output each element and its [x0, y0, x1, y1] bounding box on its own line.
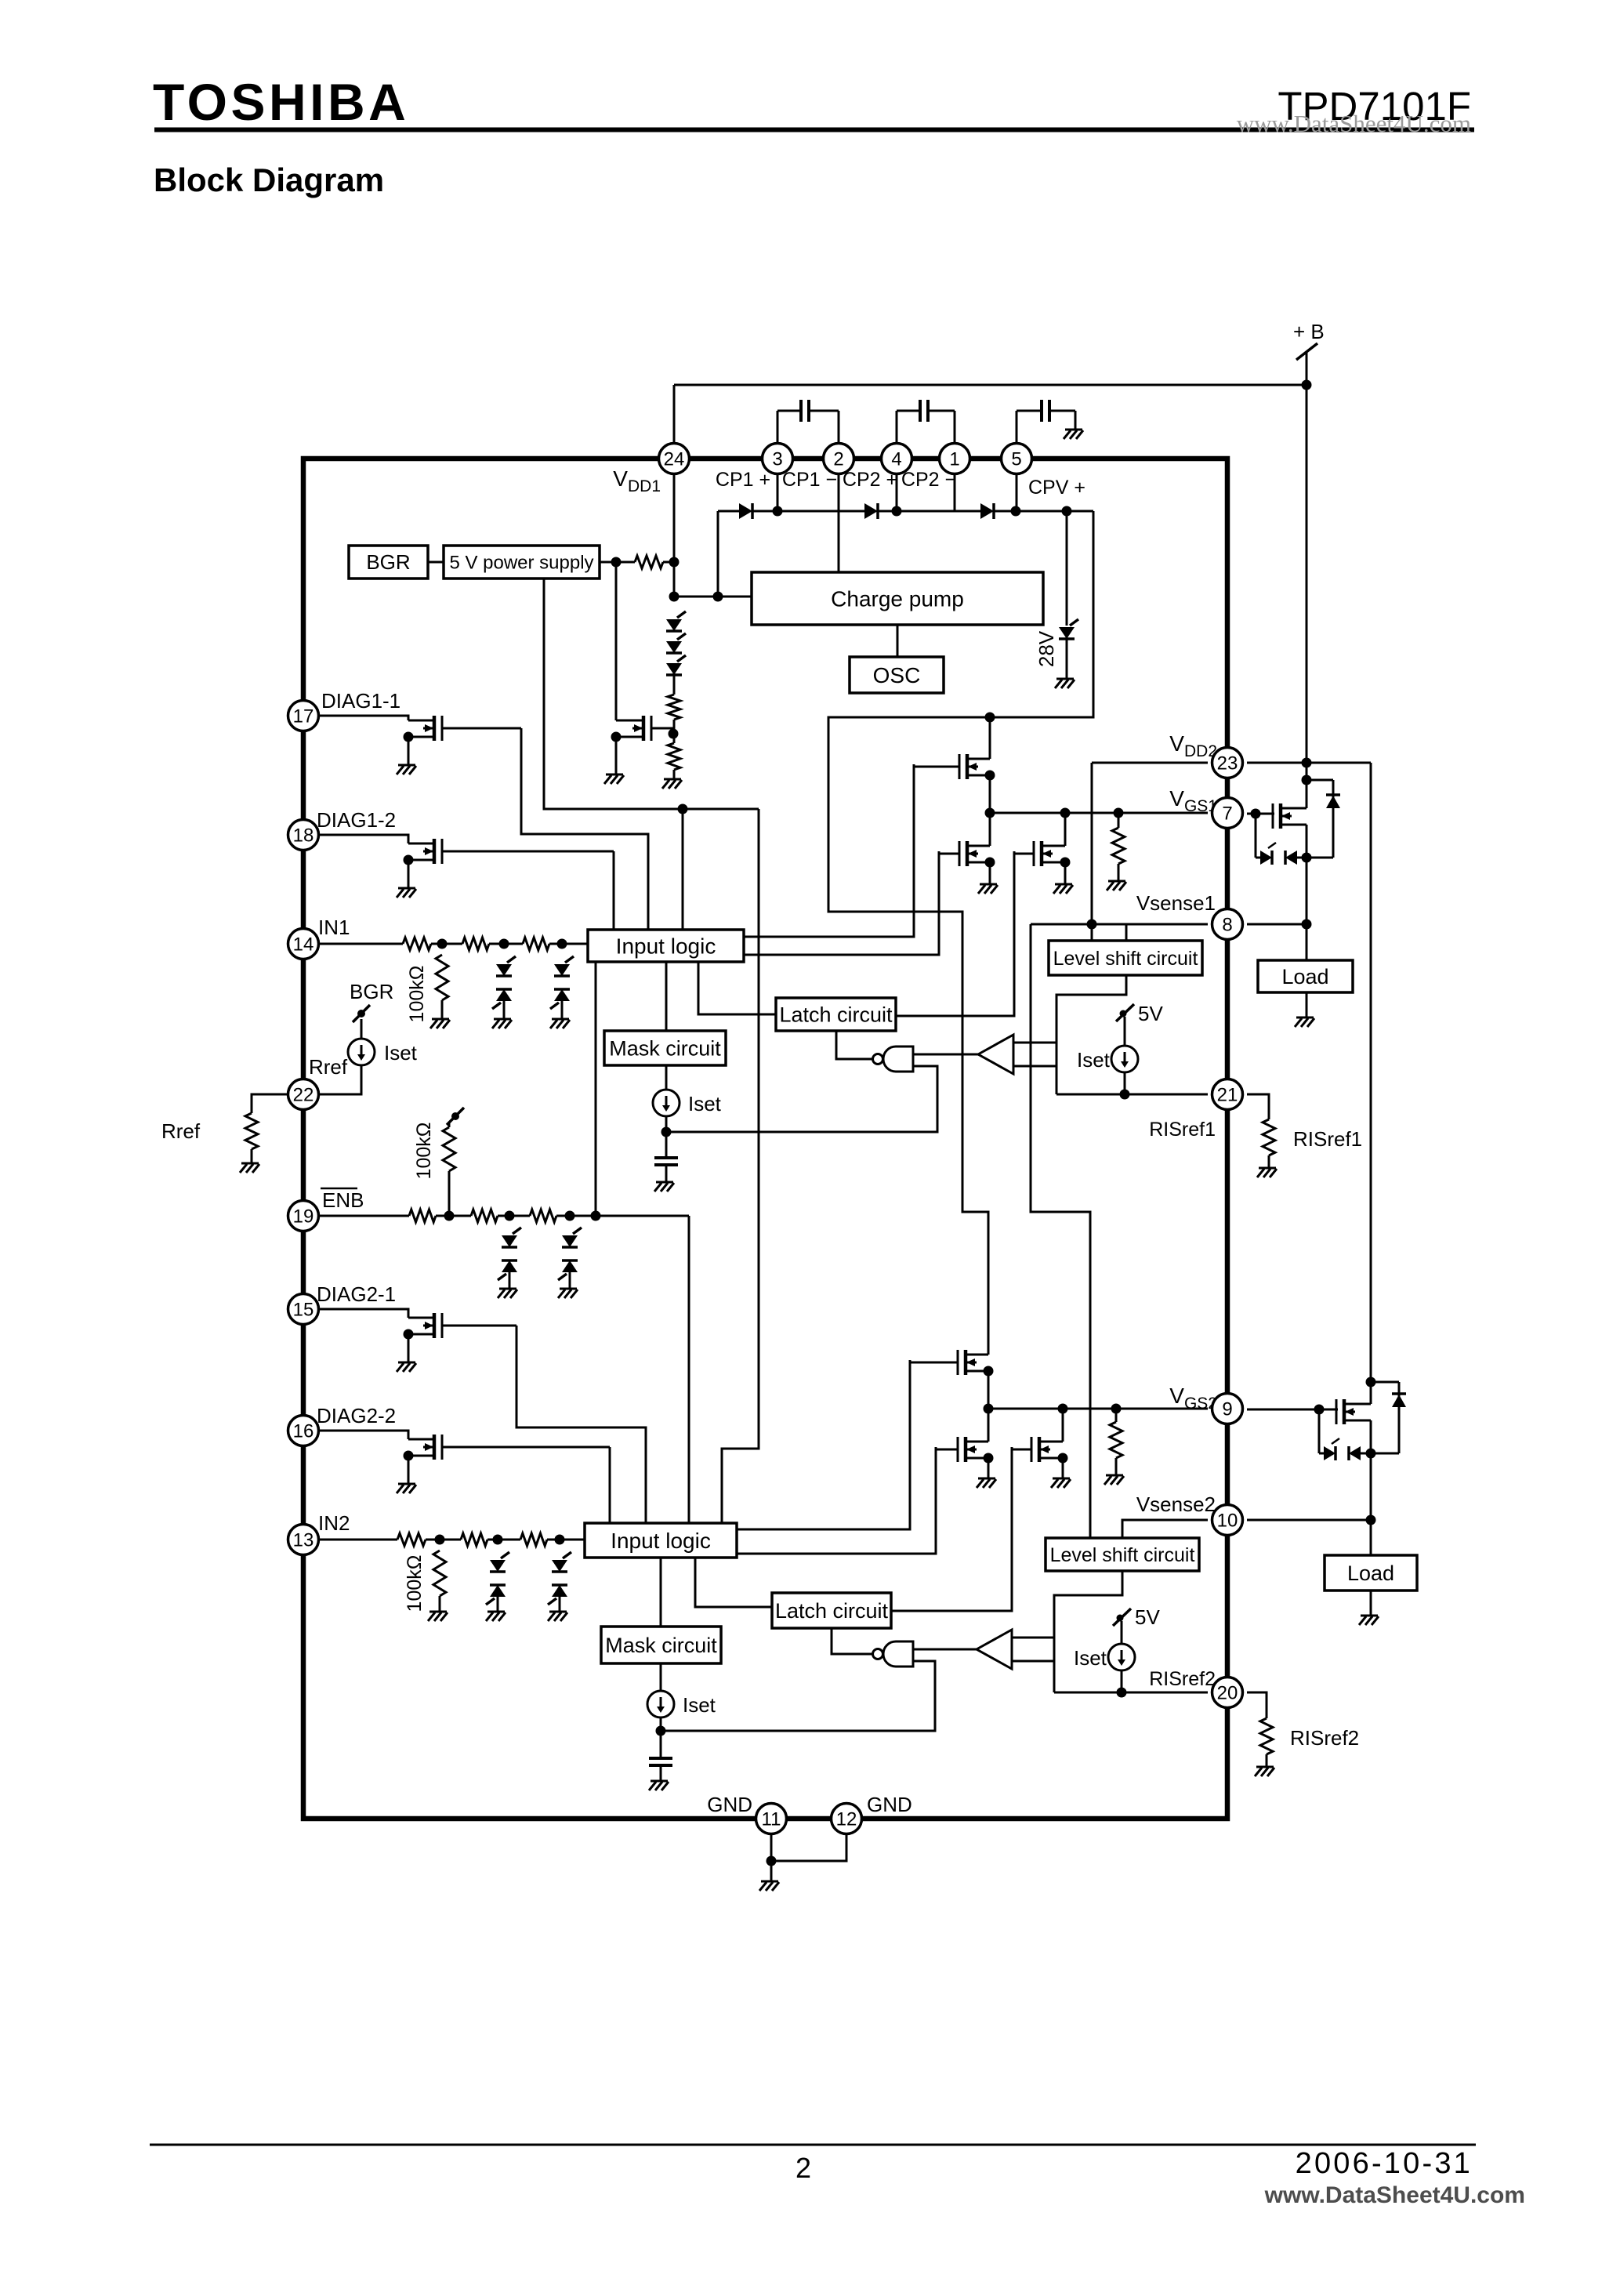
title Block Diagram: [154, 161, 384, 198]
svg-text:BGR: BGR: [350, 980, 393, 1003]
svg-text:RISref1: RISref1: [1149, 1119, 1216, 1141]
ground ENB b zener: [498, 1289, 517, 1298]
wire pin10 left: [1122, 1520, 1208, 1538]
wire pin2 to charge pump: [838, 473, 840, 572]
label DIAG1-2: [317, 808, 396, 832]
wire 5V rail into IL1: [682, 809, 684, 930]
wire Q2 zener left: [1319, 1453, 1324, 1455]
svg-text:5 V power supply: 5 V power supply: [449, 552, 593, 573]
slash ENB 100k variable: [447, 1108, 464, 1125]
wire Iset LS1 down: [1124, 1072, 1126, 1094]
ground IN1 c zener: [550, 1019, 570, 1028]
zener IN1 b upper: [496, 956, 516, 976]
wire mask2 to Iset: [660, 1663, 662, 1691]
wire pin20 external: [1247, 1692, 1267, 1718]
ground Rref: [240, 1163, 259, 1173]
wire ENB 100k bottom: [448, 1171, 451, 1216]
ground GND pins: [759, 1881, 779, 1891]
transistor QC (DIAG2-1 open drain): [404, 1313, 517, 1340]
svg-text:10: 10: [1217, 1511, 1238, 1532]
label BGR ref: [350, 980, 393, 1003]
svg-text:BGR: BGR: [366, 550, 410, 574]
ground divider: [662, 779, 682, 789]
wire QC source to ground: [408, 1334, 410, 1362]
wire load1 to ground: [1306, 992, 1308, 1017]
node load2 top: [1366, 1515, 1376, 1525]
wire Iset mask1 down: [665, 1116, 668, 1158]
pin 8 Vsense1: [1212, 909, 1243, 940]
footer date 2006-10-31: [1296, 2147, 1473, 2180]
wire pin5 down: [1016, 473, 1018, 511]
wire LS1 riser: [1091, 763, 1093, 941]
+B source slash: [1296, 343, 1317, 360]
label RISref2 inner: [1149, 1668, 1216, 1690]
svg-text:Latch circuit: Latch circuit: [779, 1003, 893, 1026]
ground IN1 b zener: [492, 1019, 512, 1028]
wire pin1 down: [954, 473, 956, 511]
pin 20 RISref2: [1212, 1678, 1243, 1708]
svg-text:DIAG1-2: DIAG1-2: [317, 808, 396, 832]
wire pin4 stub up: [896, 411, 898, 444]
pin 5 CPV+: [1002, 444, 1032, 474]
wire CPV rail down: [828, 511, 1093, 1355]
wire 5V rail down to IL2: [722, 809, 759, 1523]
wire IL1 bottom to ENB: [595, 962, 597, 1216]
resistor ENB R2: [471, 1210, 498, 1222]
wire NAND1 in1 from comparator: [913, 1054, 978, 1056]
zener ZD3: [666, 655, 686, 675]
svg-text:Iset: Iset: [683, 1693, 716, 1717]
wire pin5 stub up: [1016, 411, 1018, 444]
transistor T3 (latch pulldown): [1014, 841, 1071, 868]
node Q2 drain diode: [1366, 1377, 1376, 1387]
ground ENB c zener: [558, 1289, 578, 1298]
node ENB c: [565, 1211, 575, 1221]
label 5V ch1: [1138, 1002, 1163, 1025]
svg-text:23: 23: [1217, 753, 1238, 774]
wire resistor to VDD1: [663, 561, 674, 564]
wire D2 to pin4 node: [878, 510, 897, 513]
wire mask1 junction to NAND1: [666, 1066, 937, 1132]
svg-text:www.DataSheet4U.com: www.DataSheet4U.com: [1264, 2182, 1525, 2208]
wire mask2 cap ground: [660, 1765, 662, 1781]
wire diode row riser: [717, 511, 719, 597]
label 100kOhm IN2: [404, 1555, 426, 1612]
transistor T4 (driver high ch2): [910, 1350, 994, 1377]
wire IL2 out2: [737, 1447, 936, 1554]
resistor IN1 R1: [403, 938, 431, 950]
node IN1 c: [557, 939, 567, 949]
resistor ENB 100k: [443, 1127, 455, 1171]
ground cap C3: [1064, 430, 1083, 439]
svg-text:Input logic: Input logic: [616, 934, 716, 958]
node top rail +B junction: [1302, 380, 1312, 390]
label GND right: [867, 1793, 912, 1816]
wire latch2 out to T6: [891, 1447, 1012, 1611]
wire cap C2 right lead: [928, 410, 955, 412]
node ENB a: [444, 1211, 455, 1221]
node IN1 a: [437, 939, 448, 949]
label Iset mask1: [688, 1092, 722, 1115]
capacitor C1 (CP1): [801, 400, 809, 422]
svg-text:Iset: Iset: [1074, 1646, 1107, 1670]
wire D1 to pin3 node: [752, 510, 777, 513]
wire Q1 body diode top: [1307, 779, 1333, 782]
svg-text:5V: 5V: [1135, 1605, 1160, 1629]
wire Q1 zener left: [1256, 857, 1260, 859]
wire pin3 node to D2: [777, 510, 864, 513]
resistor RISref1: [1263, 1119, 1275, 1155]
zener IN2 c lower: [548, 1585, 567, 1605]
ground IN2 100k: [428, 1612, 448, 1621]
resistor VGS1 pulldown: [1112, 813, 1125, 864]
ground QD: [397, 1484, 416, 1493]
ground 28V zener: [1055, 679, 1075, 688]
wire pin3 stub up: [777, 411, 779, 444]
wire +B supply line: [1306, 352, 1308, 803]
part number TPD7101F: [1278, 84, 1471, 129]
svg-text:RISref1: RISref1: [1293, 1127, 1362, 1151]
wire QB source to ground: [408, 860, 410, 888]
gate NAND1: [873, 1046, 914, 1072]
wire top rail: [674, 384, 1307, 386]
ground mask2 cap: [649, 1781, 669, 1790]
wire RISref2 resistor ground: [1266, 1754, 1268, 1767]
svg-text:Charge pump: Charge pump: [831, 586, 964, 611]
svg-text:22: 22: [293, 1085, 314, 1106]
block Latch circuit 2: [772, 1593, 891, 1628]
transistor T5 (driver low ch2): [936, 1437, 994, 1464]
label CP2+: [843, 469, 897, 491]
wire latch1 out to T3: [896, 851, 1014, 1016]
svg-text:100kΩ: 100kΩ: [413, 1123, 435, 1180]
ground T6 source: [1051, 1478, 1071, 1488]
node Q2 gate: [1314, 1405, 1325, 1415]
pin 13 IN2: [288, 1525, 319, 1555]
wire RISref1 internal: [1056, 1094, 1208, 1096]
svg-text:www.DataSheet4U.com: www.DataSheet4U.com: [1237, 110, 1471, 137]
svg-text:18: 18: [293, 825, 314, 847]
pin 4 CP2+: [882, 444, 912, 474]
node VGS1 totem: [985, 808, 995, 818]
block Load 1: [1258, 960, 1353, 992]
ground IN1 100k: [430, 1019, 450, 1028]
svg-text:Block Diagram: Block Diagram: [154, 161, 384, 198]
node IN1 b: [499, 939, 509, 949]
wire T2 source down: [989, 862, 991, 884]
wire Q1 zener right: [1297, 857, 1307, 859]
resistor IN1 100k: [436, 955, 448, 1000]
transistor QB (DIAG1-2 open drain): [404, 839, 614, 865]
label 28V: [1035, 630, 1058, 667]
label CP1+: [716, 469, 770, 491]
wire T5 source down: [988, 1458, 990, 1478]
node ENB b: [505, 1211, 515, 1221]
svg-text:16: 16: [293, 1421, 314, 1442]
footer watermark www.DataSheet4U.com: [1264, 2182, 1525, 2208]
current source Iset mask1: [653, 1090, 680, 1116]
wire QD source to ground: [408, 1456, 410, 1484]
wire pin17 to Q-A: [319, 716, 408, 720]
wire IN1 lead: [319, 943, 403, 945]
wire T4 source to VGS2: [988, 1371, 990, 1409]
wire IN2 lead: [319, 1539, 397, 1541]
wire T2 drain up: [989, 813, 991, 846]
label RISref1 outer: [1293, 1127, 1362, 1151]
wire Q2 source down: [1370, 1420, 1372, 1555]
capacitor C3 (CPV): [1042, 400, 1049, 422]
svg-text:28V: 28V: [1035, 630, 1058, 667]
block Mask circuit 2: [601, 1627, 721, 1663]
wire VDD2 far rail: [1370, 763, 1372, 1404]
wire IN2 a-b: [426, 1539, 461, 1541]
page number 2: [796, 2152, 811, 2184]
ground mask1 cap: [654, 1182, 674, 1192]
label Iset LS2: [1074, 1646, 1107, 1670]
wire ENB b-c: [498, 1215, 530, 1217]
block Input logic 1: [588, 930, 744, 962]
resistor VGS2 pulldown: [1110, 1409, 1122, 1458]
zener ENB c lower: [558, 1260, 578, 1280]
label 5V ch2: [1135, 1605, 1160, 1629]
label Rref inner: [309, 1055, 348, 1079]
node VGS2 resistor: [1111, 1404, 1122, 1414]
wire 28V zener to ground: [1066, 637, 1068, 679]
wire charge pump to OSC: [897, 625, 899, 657]
wire NAND2 in1 from comparator: [913, 1649, 977, 1651]
label RISref1 inner: [1149, 1119, 1216, 1141]
wire pin11 down: [770, 1834, 773, 1881]
block Mask circuit 1: [604, 1031, 726, 1065]
wire zener to resistor: [673, 673, 676, 695]
label Iset LS1: [1077, 1048, 1111, 1072]
zener IN1 b lower: [492, 989, 512, 1009]
wire NAND2 out to latch2: [832, 1628, 875, 1654]
wire pin16 to Q-D: [319, 1431, 408, 1439]
pin 1 CP2-: [940, 444, 970, 474]
wire RISref1 resistor ground: [1268, 1155, 1270, 1168]
label CP1-: [782, 469, 837, 491]
svg-text:TOSHIBA: TOSHIBA: [153, 73, 409, 131]
wire ENB b zener ground: [509, 1271, 511, 1289]
svg-text:IN1: IN1: [318, 916, 350, 939]
wire T6 drain up: [1062, 1409, 1064, 1442]
label IN2: [318, 1511, 350, 1535]
node M5 gate at divider: [669, 729, 679, 739]
wire pin7 to Q1 gate: [1247, 813, 1274, 815]
resistor IN2 R3: [520, 1533, 547, 1546]
wire VGS1 internal: [990, 812, 1208, 814]
ground QA: [397, 765, 416, 774]
wire IN2 100k ground: [439, 1596, 441, 1612]
label CP2-: [901, 469, 956, 491]
node Iset LS1 junction: [1120, 1090, 1130, 1100]
wire 5V rail bottom: [544, 579, 759, 809]
wire Q1 source down: [1306, 825, 1308, 924]
wire VGS2 resistor ground: [1115, 1458, 1118, 1475]
wire mask1 to Iset: [665, 1065, 668, 1090]
wire IL1 to mask1: [665, 962, 668, 1031]
resistor VDD1 series: [635, 556, 663, 568]
node mask2 iset junction: [656, 1726, 666, 1736]
label ENB: [321, 1188, 364, 1212]
block 5V power supply: [444, 546, 600, 579]
wire 5V rail down: [615, 562, 618, 720]
pin 16 DIAG2-2: [288, 1416, 319, 1446]
pin 18 DIAG1-2: [288, 820, 319, 851]
svg-text:4: 4: [891, 449, 901, 470]
svg-text:24: 24: [664, 449, 685, 470]
svg-text:Input logic: Input logic: [611, 1529, 711, 1553]
label Rref outer: [161, 1119, 201, 1143]
wire pin12 down: [771, 1834, 846, 1861]
wire Vsense1 stub to LS1: [1125, 924, 1128, 941]
wire pin18 to Q-B: [319, 835, 408, 843]
wire IN1 b zener to ground: [503, 999, 506, 1019]
label Iset mask2: [683, 1693, 716, 1717]
node mask1 iset junction: [661, 1127, 672, 1137]
pin 23 VDD2: [1212, 748, 1243, 778]
zener ENB b lower: [498, 1260, 517, 1280]
label Iset ref: [384, 1041, 418, 1065]
wire VGS1 resistor to ground: [1118, 864, 1120, 881]
svg-text:Load: Load: [1281, 965, 1328, 988]
pin 17 DIAG1-1: [288, 701, 319, 731]
ground VGS1 resistor: [1107, 881, 1126, 890]
ground T2 source: [978, 884, 998, 894]
wire ENB 100k top: [448, 1123, 451, 1127]
block Level shift circuit 1: [1049, 941, 1202, 975]
wire IN1 into IL1: [549, 943, 588, 945]
svg-text:19: 19: [293, 1206, 314, 1228]
node GND junction: [767, 1856, 777, 1866]
wire IN2 c zener ground: [559, 1595, 561, 1612]
wire cap C3 to ground: [1075, 411, 1077, 430]
wire Iset mask2 down: [660, 1717, 662, 1758]
diode Q1 body: [1326, 795, 1340, 808]
wire ENB riser to IL2: [688, 1216, 690, 1523]
wire Q1 drain up: [1306, 780, 1308, 808]
wire IL2 to latch2: [695, 1558, 772, 1607]
wire 5V out: [600, 561, 635, 564]
pin 15 DIAG2-1: [288, 1294, 319, 1325]
zener ENB b upper: [502, 1228, 521, 1247]
wire RISref2 internal: [1054, 1692, 1208, 1694]
node VGS1 resistor: [1114, 808, 1124, 818]
pin 3 CP1+: [763, 444, 793, 474]
ground QB: [397, 888, 416, 898]
zener IN2 b upper: [490, 1552, 509, 1572]
wire Q2 body diode bottom: [1371, 1453, 1399, 1455]
wire Q2 body diode top: [1371, 1381, 1399, 1384]
svg-text:DIAG2-1: DIAG2-1: [317, 1282, 396, 1306]
wire cap C1 left lead: [777, 410, 801, 412]
svg-text:Iset: Iset: [688, 1092, 722, 1115]
wire pin10 right: [1247, 1519, 1371, 1522]
svg-text:CP2 −: CP2 −: [901, 469, 956, 491]
wire cap C3 left lead: [1017, 410, 1042, 412]
block Level shift circuit 2: [1046, 1538, 1199, 1571]
capacitor mask1: [654, 1158, 678, 1165]
wire comparator2 in top: [1012, 1637, 1054, 1639]
wire T1 drain up: [989, 717, 991, 759]
block Latch circuit 1: [776, 998, 896, 1031]
wire Iset LS2 down: [1121, 1670, 1123, 1692]
svg-text:RISref2: RISref2: [1290, 1726, 1359, 1750]
wire VGS2 internal: [988, 1408, 1208, 1410]
wire ENB lead: [319, 1215, 409, 1217]
pin 24 VDD1: [659, 444, 690, 474]
node VDD1 zener tap: [669, 592, 680, 602]
wire pin2 stub up: [838, 411, 840, 444]
wire Q2 body diode: [1398, 1382, 1401, 1453]
label RISref2 outer: [1290, 1726, 1359, 1750]
svg-text:14: 14: [293, 934, 314, 956]
wire mask2 junction to NAND2: [661, 1661, 935, 1731]
node +B at MOSFET drain: [1302, 775, 1312, 785]
node diode row riser: [713, 592, 723, 602]
ground RISref1: [1257, 1168, 1277, 1177]
label DIAG1-1: [321, 689, 400, 713]
svg-text:21: 21: [1217, 1085, 1238, 1106]
ground load1: [1295, 1017, 1314, 1027]
label DIAG2-1: [317, 1282, 396, 1306]
zener IN1 c lower: [550, 989, 570, 1009]
transistor QA (DIAG1-1 open drain): [404, 716, 522, 742]
resistor divider R-a: [668, 695, 680, 720]
wire T6 source down: [1062, 1458, 1064, 1478]
block OSC: [850, 657, 944, 693]
pin 22 Rref: [288, 1079, 319, 1110]
wire IN2 into IL2: [547, 1539, 585, 1541]
pin 19 ENB: [288, 1201, 319, 1231]
wire IN1 a-b: [431, 943, 462, 945]
svg-text:3: 3: [772, 449, 782, 470]
svg-text:+ B: + B: [1293, 320, 1325, 343]
svg-text:15: 15: [293, 1300, 314, 1321]
wire divider mid: [673, 720, 676, 743]
resistor IN1 R3: [523, 938, 549, 950]
current source Iset ref: [348, 1039, 375, 1065]
node 28V zener tap: [1062, 506, 1072, 517]
IC boundary box: [303, 459, 1227, 1819]
diode Q2 body: [1392, 1394, 1406, 1407]
svg-text:13: 13: [293, 1530, 314, 1551]
wire pin22 external: [252, 1094, 288, 1113]
wire 28V zener lead: [1066, 511, 1068, 626]
resistor ENB R1: [409, 1210, 436, 1222]
svg-text:2006-10-31: 2006-10-31: [1296, 2147, 1473, 2180]
ground RISref2: [1255, 1767, 1274, 1776]
transistor T1 (driver high): [914, 754, 995, 781]
transistor M5 (internal clamp): [611, 716, 674, 742]
label VDD2: [1169, 731, 1217, 760]
svg-text:Iset: Iset: [384, 1041, 418, 1065]
node VGS1 T3 drain: [1060, 808, 1071, 818]
node Q2 source zener: [1366, 1449, 1376, 1459]
wire comparator2 in bottom: [1012, 1660, 1054, 1663]
wire Q1 body diode: [1332, 780, 1335, 858]
ground IN2 b zener: [486, 1612, 506, 1621]
pin 10 Vsense2: [1212, 1505, 1243, 1536]
wire pin8 left: [1031, 923, 1208, 926]
pin 2 CP1-: [824, 444, 854, 474]
label 100kOhm IN1: [406, 966, 428, 1023]
label +B: [1293, 320, 1325, 343]
pin 9 VGS2: [1212, 1394, 1243, 1424]
svg-text:Vsense1: Vsense1: [1136, 891, 1216, 915]
resistor ENB R3: [530, 1210, 556, 1222]
